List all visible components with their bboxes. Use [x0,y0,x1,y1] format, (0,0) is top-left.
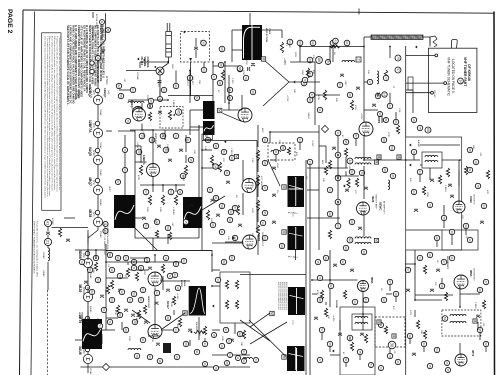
wire below B6 [295,250,297,260]
svg-text:79: 79 [396,56,400,60]
power transformer T1 core [242,25,262,60]
more tiny labels yoke [294,52,296,58]
T1 white notch [251,25,253,60]
svg-text:20: 20 [478,288,482,292]
junction dots [167,61,169,63]
rd value texts [221,336,223,342]
fbr caps [436,269,440,271]
svg-text:1200: 1200 [157,82,159,88]
svg-text:150K: 150K [146,207,148,213]
svg-text:78: 78 [442,216,446,220]
svg-text:M: M [205,134,208,138]
svg-text:.0015: .0015 [348,165,350,171]
trimmer cap inside [194,47,198,49]
yoke chevron upper [264,60,289,82]
svg-text:24: 24 [482,204,486,208]
svg-text:(V11): (V11) [92,150,95,156]
heater of tube 3BZ6 (V5) [83,292,92,301]
svg-text:4BQ7: 4BQ7 [88,177,92,186]
svg-text:14: 14 [128,298,132,302]
AC labels [51,218,54,225]
label 3BZ6 [78,284,82,292]
svg-text:64: 64 [242,350,246,354]
se caps [338,333,342,335]
svg-text:56: 56 [443,317,447,321]
ref circle 13 [425,127,431,133]
extra caps right IF [332,147,336,149]
sound IF tube V6 [453,201,465,213]
svg-text:SOUND DET: SOUND DET [446,256,448,270]
svg-text:75: 75 [418,126,422,130]
notes text block [66,25,106,105]
svg-text:32: 32 [341,260,345,264]
boxed M near B10 [183,311,187,315]
bottom tube V11 [455,354,467,366]
labels far bottom [380,288,382,291]
svg-text:96: 96 [116,256,120,260]
dashed box sound takeoff [268,143,295,160]
svg-text:61: 61 [345,41,349,45]
resistor R13 [174,195,177,205]
7-73 dim label [288,211,298,215]
label 3CB6 [469,196,473,203]
svg-text:26: 26 [445,361,449,365]
blob B10 horiz transformer [189,286,206,316]
label 4BQ7 [88,177,92,186]
label 5AQ5 [88,147,92,156]
label 3BN6 [469,270,472,277]
diag lead 2 [202,196,225,210]
svg-text:32: 32 [110,268,114,272]
dash heater segments [87,268,89,292]
heater of tube 4BQ7 (V1) [93,185,102,194]
resistor R1 [148,112,151,121]
svg-text:27: 27 [442,260,446,264]
svg-text:47K: 47K [486,190,488,194]
-125V label [245,59,247,65]
svg-text:A PRODUCT OF RADIO CORP.: A PRODUCT OF RADIO CORP. [103,224,106,256]
svg-text:77: 77 [318,358,322,362]
svg-text:AF AMP DET: AF AMP DET [383,201,386,215]
svg-text:49: 49 [344,246,348,250]
voltage 76VAC [99,142,102,149]
svg-text:41: 41 [220,230,224,234]
svg-text:63: 63 [422,342,426,346]
svg-text:3900: 3900 [96,318,98,324]
ref circles column x338 [335,130,341,136]
svg-text:86: 86 [326,60,330,64]
30VAC label [433,90,436,98]
wires yoke [290,61,315,63]
half 6CG7 label [195,322,197,332]
wires [128,99,168,101]
svg-text:87: 87 [233,206,237,210]
boxed arrow component [356,57,361,62]
svg-text:82K: 82K [335,98,337,102]
wires power area [159,75,161,96]
small tube bottom [388,341,396,349]
label 12BQ7 [130,100,134,109]
video amp tube V3 [147,164,160,177]
bc value texts [143,270,145,276]
left AC chain circle 2 [44,238,51,245]
svg-text:46: 46 [174,262,178,266]
VHF tuner box [428,48,477,112]
cap C8 [251,64,255,66]
extra circles vert section [143,223,148,228]
svg-text:71: 71 [132,266,136,270]
svg-text:57: 57 [406,268,410,272]
svg-text:16: 16 [428,253,432,257]
wire y131 left ext [118,130,135,132]
+260V label [360,113,362,120]
svg-text:97: 97 [224,328,228,332]
arrows into box [409,143,411,146]
volume control label [161,133,163,138]
svg-text:1500: 1500 [276,163,278,169]
T1 leads [232,29,242,31]
svg-text:120K: 120K [221,336,223,342]
svg-text:VERT: VERT [108,186,110,192]
voltage 49VAC [89,306,92,313]
svg-text:16: 16 [175,355,179,359]
wire [389,47,391,59]
wire T1 to border [249,13,251,25]
svg-text:100K: 100K [159,207,161,213]
IF transformer T2 core upper [203,101,215,119]
ref circles near tube [147,103,152,108]
svg-text:125V: 125V [409,310,411,316]
wire x257 [256,141,258,234]
svg-text:+255V: +255V [136,142,138,149]
more circles sound strip [381,137,386,142]
bottom wires2 [95,250,97,259]
labels right col [312,55,314,59]
12BQ7 right label [103,88,107,98]
cap right of circle240 [248,67,250,71]
ref circles [194,95,199,100]
wire y140 [202,140,257,142]
svg-text:270K: 270K [387,132,389,138]
svg-text:34: 34 [208,188,212,192]
svg-text:58: 58 [440,284,444,288]
12BQ7 RF tube [133,107,144,118]
tube V4 envelope [242,179,256,193]
circle T8 [347,237,353,243]
numbered notes box [42,33,61,211]
svg-text:76: 76 [244,76,248,80]
svg-text:85VAC: 85VAC [99,231,102,238]
extra wires vert [135,145,141,147]
svg-text:2.35V: 2.35V [231,78,233,84]
circles yoke row [344,40,350,46]
X diagonals [250,313,270,327]
svg-text:10K: 10K [327,315,329,319]
svg-text:-125V: -125V [245,59,247,65]
AGC dashed line [47,290,49,375]
labels midband [295,152,297,156]
svg-text:31: 31 [228,88,232,92]
svg-text:12BF7A: 12BF7A [88,120,92,133]
extra bottom-left wires [87,250,89,260]
svg-text:CONTROL: CONTROL [146,57,148,69]
bottom cluster coil [243,357,253,359]
heater wire to 117VAC label [105,76,108,85]
bc circles [144,257,149,262]
caps [333,264,337,266]
wires [130,269,149,271]
label 3BZ6 [371,196,375,203]
svg-text:4BZ6: 4BZ6 [88,209,92,217]
circle below coils [359,170,364,175]
svg-text:470K: 470K [114,310,116,316]
svg-text:35: 35 [428,364,432,368]
svg-text:15: 15 [184,220,188,224]
coil L3 [342,60,355,62]
se circles [317,275,322,280]
svg-text:LOCATED ON PAGE 5.: LOCATED ON PAGE 5. [451,59,455,94]
wire y227.5 [52,227,89,229]
svg-text:89: 89 [222,260,226,264]
wire jog [406,89,413,91]
svg-text:SOUND: SOUND [335,300,337,308]
vert wire x406 [405,46,407,137]
svg-text:88: 88 [225,361,229,365]
bottom bus y255 [106,250,212,252]
bc caps [148,267,152,269]
blob B9 vertical output transformer [82,319,102,349]
svg-text:94: 94 [228,353,232,357]
se value texts [316,290,318,296]
resistor R31 [221,70,224,80]
+255V label [136,142,138,149]
arrow at tuner feed [415,45,417,48]
svg-text:63: 63 [336,224,340,228]
value texts power [231,78,233,84]
svg-text:M: M [218,109,222,112]
tuner text [447,57,451,97]
svg-text:14: 14 [383,93,387,97]
svg-text:68K: 68K [472,145,474,149]
resistors divider [210,155,213,165]
svg-text:1/2 6CG7: 1/2 6CG7 [195,322,197,332]
svg-text:65: 65 [211,223,215,227]
heater of tube 4BZ6 (V4) [93,217,102,226]
svg-text:1MEG: 1MEG [182,175,184,181]
ref in coil box [442,316,448,322]
ref circle [95,178,99,182]
svg-text:8200: 8200 [154,218,156,224]
yoke chevron lower [263,82,289,106]
svg-text:43: 43 [334,39,338,43]
resistor R21 [328,160,331,169]
quad coil box [442,310,481,336]
svg-text:33K: 33K [198,80,200,84]
svg-text:14: 14 [162,88,166,92]
boxed letter in quad box [473,319,477,323]
X diagonal 1 [249,320,286,357]
voltage 85VAC [89,272,92,279]
117VAC label [76,90,79,99]
ref circles bottom [147,354,152,359]
right circles col [307,57,313,63]
sound take-off coil [425,155,438,157]
svg-text:10K: 10K [367,70,369,74]
tuner ref circle [458,78,464,84]
svg-text:17: 17 [368,80,372,84]
coil L1 [128,101,144,103]
svg-text:79: 79 [318,276,322,280]
svg-text:11: 11 [236,356,240,359]
resistor R11 [148,195,151,205]
wire y274.5 [240,274,306,276]
svg-text:35: 35 [316,260,320,264]
ref circle [95,148,99,152]
+AGC label [321,160,324,165]
svg-text:14: 14 [158,97,162,101]
svg-text:3BN6: 3BN6 [469,270,472,277]
vertical coil on x364 [377,71,379,84]
svg-text:31: 31 [139,266,143,270]
svg-text:PILOT: PILOT [98,58,100,65]
svg-text:21: 21 [46,240,51,245]
svg-text:76VAC: 76VAC [99,109,102,116]
wire from choke corner [364,36,371,38]
svg-text:91: 91 [195,350,199,354]
VERT OUTPUT label [78,312,80,318]
svg-text:58: 58 [119,94,123,98]
svg-text:78: 78 [476,184,480,188]
label 4BZ6 [256,178,260,185]
IF resistor column [256,150,259,160]
svg-text:(V2): (V2) [92,90,95,95]
svg-text:OF AMERICA HARRISON N.J.: OF AMERICA HARRISON N.J. [106,224,109,254]
2nd video IF tube V13 [243,235,257,249]
value texts divider [204,146,206,151]
svg-text:VERT OSC: VERT OSC [154,133,156,145]
plug crossbars [166,35,172,37]
divider x405 extension [405,264,407,375]
svg-text:24: 24 [338,83,342,87]
ref circles row [287,39,293,45]
cap near tube [364,187,368,189]
cap C32 [356,87,360,89]
svg-text:68: 68 [263,161,267,165]
svg-text:45: 45 [177,110,181,114]
svg-text:1.5K: 1.5K [398,108,400,113]
arrow at left of tube [232,236,234,239]
svg-text:VERT: VERT [78,312,80,318]
svg-text:R201: R201 [294,52,296,58]
more circles midband [273,149,278,154]
control arrow [137,57,139,60]
svg-text:150K: 150K [128,336,130,342]
wire y46 bus [300,46,364,48]
label 4BZ6 second [257,234,261,241]
extra circles right IF [343,139,348,144]
T5 boxed letter [282,185,286,189]
svg-text:73: 73 [174,134,178,138]
labels right col mid [486,190,488,194]
DET label [446,256,448,270]
wires mid [135,161,147,163]
caps and resistors [430,179,434,181]
bc resistors [161,264,164,273]
power bus y70 [126,70,156,72]
value texts yoke [301,70,303,76]
svg-text:76: 76 [164,256,168,260]
cap C2 [158,111,162,113]
section divider x306 [305,160,307,375]
svg-text:12BF7A: 12BF7A [142,155,146,165]
IF transformer T2 core lower [203,121,215,135]
svg-text:71: 71 [168,274,172,278]
svg-text:39: 39 [324,256,328,260]
value texts vert [137,175,139,181]
se res [324,308,327,317]
res left [58,228,61,237]
svg-text:20: 20 [280,244,284,248]
svg-text:20: 20 [383,168,387,172]
wires right section [307,167,348,169]
svg-text:14: 14 [348,159,352,163]
sound value texts [409,178,411,182]
sub box components [225,280,228,289]
+ test circles [395,55,401,61]
svg-text:49: 49 [362,250,366,254]
circles above B2 [122,147,127,152]
T3 label [108,186,110,192]
svg-text:36: 36 [203,362,207,366]
extra caps vert [142,217,146,219]
svg-text:3DT6: 3DT6 [377,116,381,123]
svg-text:3BZ6: 3BZ6 [78,284,82,292]
svg-text:22K: 22K [151,338,153,342]
svg-text:1 MEG: 1 MEG [444,185,446,192]
label 4.5MEG [285,43,287,47]
svg-text:3BY6: 3BY6 [471,350,474,357]
fuse label [189,76,191,88]
svg-text:3CB6: 3CB6 [469,196,473,203]
svg-text:M: M [282,186,286,189]
svg-text:6800: 6800 [301,70,303,76]
wire to volume control [140,61,168,63]
circle 240 [237,66,243,72]
svg-text:+270V: +270V [286,95,288,102]
voltage 79VAC [99,169,102,176]
svg-text:AGC: AGC [321,160,324,165]
svg-text:VOLUME: VOLUME [143,57,145,67]
svg-text:117VAC: 117VAC [105,76,108,85]
labels sound strip [387,132,389,138]
wire border to pilot [105,13,107,40]
label 12BF7A [88,120,92,133]
circles power area [116,83,121,88]
circles right of chain [103,221,108,226]
svg-text:4BZ6: 4BZ6 [257,234,261,241]
svg-text:32: 32 [120,290,124,294]
svg-text:30: 30 [228,218,232,222]
cap C31 [340,74,344,76]
T4 ref [177,189,182,194]
svg-text:49VAC: 49VAC [89,306,92,313]
svg-text:57: 57 [144,190,148,194]
fbr res [444,292,447,301]
wire from T1 [262,29,282,31]
svg-text:10: 10 [220,344,224,348]
tuner tab [452,40,458,49]
svg-text:90: 90 [311,41,315,45]
